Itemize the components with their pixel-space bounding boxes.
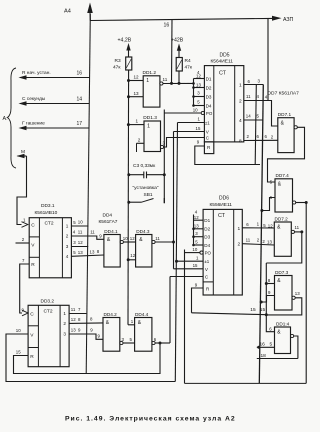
svg-text:15: 15 <box>193 263 198 268</box>
svg-text:А4: А4 <box>64 9 71 15</box>
svg-text:2: 2 <box>238 242 241 248</box>
svg-text:15: 15 <box>250 307 256 313</box>
svg-text:СТ: СТ <box>218 213 226 219</box>
svg-text:4: 4 <box>239 118 242 124</box>
svg-text:PO: PO <box>206 111 213 116</box>
svg-text:СТ2: СТ2 <box>44 308 53 314</box>
svg-text:3: 3 <box>63 332 66 337</box>
svg-text:11: 11 <box>295 225 300 230</box>
svg-text:11: 11 <box>155 236 160 241</box>
svg-text:К564ИЕ11: К564ИЕ11 <box>211 59 234 65</box>
svg-text:12: 12 <box>268 223 273 228</box>
svg-text:+42В: +42В <box>171 38 184 44</box>
svg-text:4: 4 <box>66 254 69 259</box>
svg-text:1: 1 <box>238 226 241 232</box>
svg-text:11: 11 <box>246 238 251 243</box>
svg-text:10: 10 <box>123 236 128 241</box>
svg-text:±1: ±1 <box>204 259 209 264</box>
svg-text:С секунды: С секунды <box>22 96 46 102</box>
svg-text:D3: D3 <box>204 235 210 240</box>
svg-text:R4: R4 <box>185 58 191 64</box>
svg-text:DD7.1: DD7.1 <box>278 112 292 117</box>
svg-text:12: 12 <box>130 236 135 241</box>
svg-text:D4: D4 <box>206 103 212 108</box>
svg-text:3: 3 <box>66 244 69 249</box>
svg-text:12: 12 <box>71 317 76 322</box>
svg-text:R3: R3 <box>115 58 121 64</box>
svg-text:5: 5 <box>270 342 273 348</box>
svg-text:DD3.2: DD3.2 <box>41 299 55 305</box>
svg-text:13: 13 <box>78 250 83 255</box>
svg-text:12: 12 <box>130 253 135 258</box>
svg-text:СТ: СТ <box>219 71 227 77</box>
svg-text:Рис. 1.49. Электрическая схема: Рис. 1.49. Электрическая схема узла А2 <box>65 416 236 423</box>
svg-text:DD4.1: DD4.1 <box>104 229 118 234</box>
svg-text:DD4: DD4 <box>103 213 113 219</box>
svg-text:16: 16 <box>77 71 83 77</box>
svg-text:2: 2 <box>63 321 66 326</box>
svg-text:1: 1 <box>136 119 139 124</box>
svg-text:D1: D1 <box>204 218 210 223</box>
svg-text:13: 13 <box>267 239 272 244</box>
svg-text:DD7.3: DD7.3 <box>275 270 289 275</box>
svg-text:С: С <box>30 311 34 317</box>
svg-text:D2: D2 <box>206 85 212 90</box>
svg-text:М: М <box>21 149 25 155</box>
svg-text:R: R <box>30 354 34 360</box>
svg-text:SB1: SB1 <box>144 192 153 198</box>
svg-text:DD3.1: DD3.1 <box>41 203 55 209</box>
svg-text:10: 10 <box>192 247 197 252</box>
svg-text:13: 13 <box>194 223 199 228</box>
svg-text:К561ГА7: К561ГА7 <box>99 219 118 225</box>
svg-text:17: 17 <box>77 121 83 127</box>
svg-text:R нач. устан.: R нач. устан. <box>22 70 51 76</box>
svg-text:1: 1 <box>239 82 242 88</box>
svg-text:12: 12 <box>194 215 199 220</box>
svg-text:11: 11 <box>78 229 83 234</box>
svg-text:DD7 К561ЛА7: DD7 К561ЛА7 <box>268 91 300 97</box>
svg-text:47к: 47к <box>113 65 121 71</box>
svg-text:13: 13 <box>134 91 140 96</box>
svg-text:15: 15 <box>260 307 266 313</box>
svg-text:13: 13 <box>71 328 76 333</box>
svg-text:2: 2 <box>239 98 242 104</box>
svg-text:К561ИВ10: К561ИВ10 <box>35 210 58 216</box>
svg-text:1: 1 <box>66 224 69 229</box>
svg-text:DD7.4: DD7.4 <box>276 173 290 178</box>
svg-text:С3 0,33мк: С3 0,33мк <box>133 163 156 169</box>
svg-text:DD4.2: DD4.2 <box>104 312 118 317</box>
svg-text:15: 15 <box>16 350 21 355</box>
svg-text:16: 16 <box>260 341 266 347</box>
svg-text:10: 10 <box>16 328 21 333</box>
svg-text:DD1.3: DD1.3 <box>143 115 157 121</box>
svg-text:1: 1 <box>63 311 66 316</box>
svg-text:2: 2 <box>66 234 69 239</box>
svg-text:А:: А: <box>3 116 8 122</box>
svg-text:DD4.4: DD4.4 <box>135 312 149 317</box>
svg-text:47к: 47к <box>185 65 193 71</box>
svg-text:К556ИЕ11: К556ИЕ11 <box>210 202 233 208</box>
svg-text:D2: D2 <box>204 227 210 232</box>
svg-text:12: 12 <box>78 240 83 245</box>
svg-text:D4: D4 <box>204 243 210 248</box>
svg-text:PO: PO <box>205 251 212 256</box>
svg-text:±1: ±1 <box>205 120 210 125</box>
svg-text:1: 1 <box>147 123 150 129</box>
svg-text:DD6: DD6 <box>219 196 229 202</box>
svg-text:10: 10 <box>193 107 198 112</box>
svg-text:DD5: DD5 <box>220 53 230 59</box>
svg-text:АЗП: АЗП <box>283 17 294 23</box>
svg-text:13: 13 <box>90 249 95 254</box>
svg-text:2: 2 <box>138 137 141 142</box>
svg-text:D3: D3 <box>206 94 212 99</box>
svg-text:14: 14 <box>246 114 251 119</box>
svg-text:Г гашение: Г гашение <box>22 120 45 126</box>
svg-text:DD4.3: DD4.3 <box>136 229 150 234</box>
svg-text:11: 11 <box>246 94 251 99</box>
svg-text:R: R <box>31 262 35 268</box>
svg-text:“установка”: “установка” <box>133 185 159 191</box>
svg-text:DD1.2: DD1.2 <box>143 70 157 76</box>
svg-text:D1: D1 <box>206 76 212 81</box>
svg-text:13: 13 <box>196 82 201 87</box>
svg-text:10: 10 <box>78 220 83 225</box>
svg-text:16: 16 <box>164 23 170 29</box>
svg-text:СТ2: СТ2 <box>45 220 54 226</box>
svg-text:8: 8 <box>239 138 242 144</box>
svg-text:13: 13 <box>295 291 300 296</box>
svg-text:+4,2В: +4,2В <box>118 38 132 44</box>
svg-text:11: 11 <box>71 307 76 312</box>
svg-text:11: 11 <box>90 230 95 235</box>
svg-text:12: 12 <box>134 75 140 80</box>
svg-text:DD7.2: DD7.2 <box>275 216 289 221</box>
svg-text:1: 1 <box>146 78 149 84</box>
svg-text:DD1:4: DD1:4 <box>276 321 290 326</box>
svg-text:11: 11 <box>163 77 168 82</box>
svg-text:14: 14 <box>77 97 83 103</box>
svg-text:С: С <box>31 223 35 229</box>
svg-text:15: 15 <box>196 126 201 131</box>
